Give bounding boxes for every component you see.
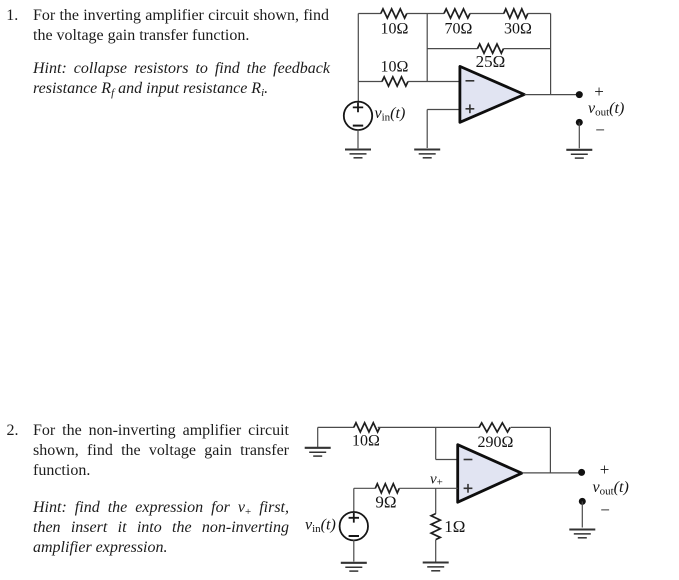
source Vin circuit2 (340, 512, 368, 540)
svg-text:70Ω: 70Ω (445, 20, 473, 37)
wire: source to ground (357, 129, 359, 148)
svg-text:30Ω: 30Ω (504, 20, 532, 37)
svg-text:−: − (600, 500, 610, 519)
ground top-left circuit2 (305, 448, 331, 456)
op-amp minus input sign (466, 80, 475, 82)
problem 1 number (6, 6, 18, 26)
wire: 25ohm row left segment (427, 48, 478, 50)
ground under output circuit1 (566, 150, 592, 158)
wire: lower dot to ground circuit2 (581, 501, 583, 527)
wire: 1ohm to ground (435, 540, 437, 562)
node lower dot circuit1 (576, 119, 583, 126)
svg-text:9Ω: 9Ω (375, 493, 396, 512)
problem 2 hint line 1 (33, 498, 289, 518)
wire: top rail segment to junction and 70ohm (407, 13, 444, 15)
wire: non-inverting row right of 9ohm (399, 487, 457, 489)
svg-text:vout(t): vout(t) (588, 100, 624, 119)
wire: op-amp output circuit2 (522, 472, 582, 474)
svg-text:290Ω: 290Ω (478, 434, 514, 451)
wire: left vertical from top rail to source (357, 14, 359, 102)
wire: non-inverting ground drop (426, 110, 428, 149)
op-amp U1 (460, 66, 524, 122)
wire: top rail between 70ohm and 30ohm (470, 13, 504, 15)
problem 2 text line 3 (33, 461, 90, 481)
wire: lower dot to ground (578, 122, 580, 148)
resistor R 9ohm (375, 484, 399, 493)
svg-text:10Ω: 10Ω (381, 59, 409, 76)
resistor R 10ohm circuit2 (354, 423, 380, 432)
problem 1 text line 1 (33, 6, 329, 26)
wire: source top to non-inverting row (353, 488, 355, 512)
wire: non-inverting row left of 9ohm (354, 487, 376, 489)
problem 2 hint line 2 (33, 518, 289, 538)
node lower dot circuit2 (579, 498, 586, 505)
problem 1 text line 2 (33, 26, 249, 46)
svg-text:+: + (594, 82, 604, 101)
op-amp plus input sign (466, 104, 475, 113)
svg-text:vout(t): vout(t) (593, 479, 629, 498)
op-amp U2 plus sign (464, 484, 473, 493)
ground under source circuit1 (345, 150, 371, 158)
wire: top rail middle segment (378, 426, 480, 428)
wire: left end down to ground (317, 427, 319, 447)
ground under non-inverting input (414, 150, 440, 158)
problem 2 text line 2 (33, 441, 289, 461)
source Vin circuit1 (344, 102, 372, 130)
resistor R 70ohm (444, 9, 470, 18)
wire: right vertical feedback down to output (550, 14, 552, 95)
wire: top rail right segment (528, 13, 551, 15)
wire: 25ohm row right segment (504, 48, 551, 50)
wire: non-inverting input row (427, 109, 460, 111)
resistor R 290ohm (479, 423, 510, 432)
svg-text:v+: v+ (430, 472, 443, 489)
resistor R 10ohm top-left (381, 9, 407, 18)
problem 2 hint line 3 (33, 538, 168, 558)
wire: inverting input row right segment (408, 81, 460, 83)
ground under 1ohm (423, 563, 449, 571)
wire: inverting input row (436, 459, 458, 461)
wire: source to ground circuit2 (353, 540, 355, 562)
wire: junction vertical to inverting row (435, 427, 437, 459)
wire: junction vertical from top rail to inverting row (426, 14, 428, 82)
wire: op-amp output (524, 94, 579, 96)
problem 2 text line 1 (33, 421, 289, 441)
wire: top rail left segment (358, 13, 381, 15)
problem 1 hint line 2 (33, 79, 268, 99)
node output dot circuit2 (578, 469, 585, 476)
wire: top rail left segment (318, 426, 354, 428)
svg-text:1Ω: 1Ω (444, 517, 465, 536)
node output dot circuit1 (576, 91, 583, 98)
op-amp U2 (458, 445, 522, 503)
svg-text:10Ω: 10Ω (381, 20, 409, 37)
svg-text:−: − (595, 120, 605, 139)
resistor R 25ohm (478, 44, 504, 53)
wire: inverting input row left segment (358, 81, 382, 83)
ground under output circuit2 (569, 530, 595, 538)
svg-text:vin(t): vin(t) (375, 105, 406, 124)
svg-text:+: + (600, 460, 610, 479)
wire: right vertical feedback to output (549, 427, 551, 473)
problem 2 number (7, 421, 19, 441)
resistor R 30ohm (504, 9, 528, 18)
svg-text:25Ω: 25Ω (476, 52, 506, 71)
ground under source circuit2 (341, 563, 367, 571)
wire: v+ node down to 1ohm (435, 488, 437, 514)
resistor R 10ohm input (382, 77, 408, 86)
wire: top rail right segment (511, 426, 551, 428)
op-amp U2 minus sign (464, 459, 473, 461)
svg-text:10Ω: 10Ω (352, 433, 380, 450)
problem 1 hint line 1 (33, 59, 330, 79)
svg-text:vin(t): vin(t) (305, 516, 336, 535)
resistor R 1ohm vertical (431, 514, 440, 540)
